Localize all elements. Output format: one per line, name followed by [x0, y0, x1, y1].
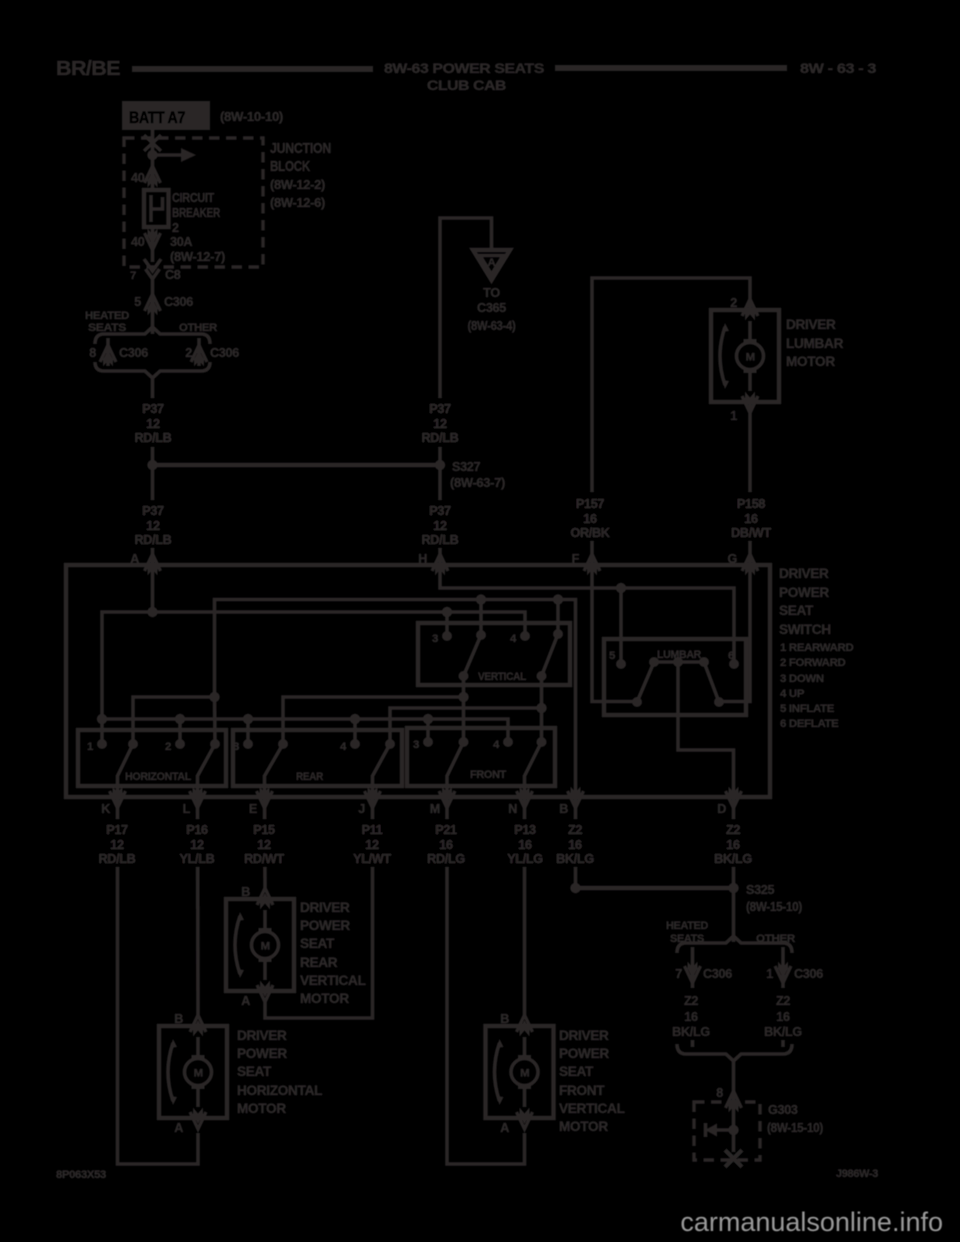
wire lumbar common to pin D [678, 662, 734, 797]
circuit breaker box [144, 190, 169, 227]
front contact 4 [503, 737, 513, 747]
svg-text:TO: TO [483, 286, 500, 300]
wire K to horizontal motor A [118, 797, 199, 1164]
ground branch connector 1 C306 [781, 947, 785, 988]
svg-text:7: 7 [130, 270, 136, 282]
wire label P16 12 YL/LB [177, 819, 217, 867]
svg-text:16: 16 [568, 838, 582, 852]
svg-text:VERTICAL: VERTICAL [478, 671, 526, 683]
switch sub-box LUMBAR [604, 639, 746, 715]
svg-text:carmanualsonline.info: carmanualsonline.info [680, 1207, 943, 1237]
wire label P13 16 YL/LG [504, 819, 545, 867]
svg-text:D: D [717, 802, 726, 816]
wire B to splice [574, 797, 578, 888]
svg-text:REAR: REAR [296, 771, 323, 783]
vertical contact 4 [520, 631, 530, 641]
pin F [584, 554, 600, 576]
wire P37 down to splice [151, 377, 155, 565]
svg-text:16: 16 [744, 512, 758, 526]
wire label P37 12 RD/LB lower [133, 500, 172, 548]
svg-text:8: 8 [716, 1086, 723, 1100]
svg-text:16: 16 [439, 838, 453, 852]
svg-text:8W-63 POWER SEATS: 8W-63 POWER SEATS [384, 61, 544, 76]
svg-text:P16: P16 [186, 823, 208, 837]
svg-text:P158: P158 [737, 497, 766, 511]
svg-text:DRIVER: DRIVER [779, 566, 829, 581]
driver power seat rear vertical motor [226, 888, 294, 1002]
svg-text:RD/LB: RD/LB [135, 533, 172, 547]
wire label P17 12 RD/LB [97, 819, 137, 867]
svg-text:3: 3 [413, 739, 419, 751]
svg-text:RD/LB: RD/LB [99, 852, 136, 866]
svg-text:2: 2 [185, 346, 192, 360]
svg-text:BR/BE: BR/BE [56, 58, 120, 80]
svg-text:C365: C365 [477, 301, 506, 315]
connector C8 double V [144, 259, 161, 271]
wire label P37 12 RD/LB right lower [420, 500, 460, 548]
lumbar contact 5 [616, 659, 626, 669]
rear switch arm left [265, 744, 284, 797]
wire pin F to lumbar rocker left [592, 565, 637, 702]
svg-text:MOTOR: MOTOR [237, 1101, 286, 1116]
svg-text:DRIVER: DRIVER [559, 1028, 609, 1043]
wire label P37 12 RD/LB [133, 398, 172, 447]
svg-text:(8W-12-7): (8W-12-7) [170, 250, 225, 264]
driver power seat horizontal motor [159, 1015, 227, 1129]
svg-text:SEAT: SEAT [559, 1064, 594, 1079]
header rule right [555, 65, 787, 71]
svg-text:CIRCUIT: CIRCUIT [172, 191, 215, 205]
wire D to splice [732, 797, 736, 942]
svg-text:3: 3 [432, 633, 438, 645]
rear switch arm right [373, 744, 391, 797]
svg-text:K: K [101, 802, 110, 816]
svg-text:VERTICAL: VERTICAL [300, 973, 366, 988]
connector 5 C306 [145, 294, 161, 316]
svg-text:RD/LB: RD/LB [135, 431, 172, 445]
svg-text:5: 5 [134, 295, 141, 309]
bus dot and arrow [147, 150, 157, 160]
splice S327 [153, 463, 441, 467]
wire label P21 16 RD/LG [426, 819, 468, 867]
svg-text:RD/LB: RD/LB [422, 533, 459, 547]
svg-text:16: 16 [776, 1010, 790, 1024]
svg-text:P11: P11 [362, 823, 383, 837]
wire stub to lumbar contact 5 [619, 588, 623, 664]
svg-text:6: 6 [728, 650, 734, 662]
switch sub-box HORIZONTAL [78, 730, 226, 786]
pin K [110, 787, 126, 809]
svg-text:S325: S325 [746, 883, 775, 897]
wire bus6 vertical arm right to rear/front arms [540, 676, 544, 742]
svg-text:MOTOR: MOTOR [300, 991, 349, 1006]
svg-text:B: B [241, 885, 250, 899]
svg-text:OR/BK: OR/BK [570, 526, 609, 540]
vertical switch arm left [464, 635, 482, 676]
wire bus3 feed from pin A [102, 612, 525, 719]
svg-text:POWER: POWER [779, 585, 829, 600]
svg-text:JUNCTION: JUNCTION [270, 140, 331, 157]
wire pin A into bus3 [151, 565, 155, 612]
wire label Z2 16 BK/LG right [713, 819, 754, 867]
wire stub bus2 to vertical arm right [556, 600, 560, 635]
svg-text:2: 2 [172, 221, 179, 235]
svg-text:8P063X53: 8P063X53 [56, 1169, 106, 1181]
svg-text:4: 4 [493, 739, 500, 751]
svg-text:2: 2 [165, 741, 171, 753]
wire battery feed vertical [151, 130, 155, 190]
svg-text:P15: P15 [253, 823, 275, 837]
rear contact 4 [350, 739, 360, 749]
vertical switch arm right [542, 634, 559, 676]
wire stub to horizontal contact 1 [100, 719, 104, 744]
off page connector triangle C365 [473, 250, 510, 280]
branch connector 2 C306 [197, 338, 201, 366]
wire bus2 ground trunk from pin B [215, 600, 576, 798]
svg-text:BK/LG: BK/LG [714, 852, 752, 866]
svg-text:HEATED: HEATED [666, 920, 708, 932]
wire below breaker [151, 227, 155, 262]
svg-text:B: B [559, 802, 568, 816]
svg-text:6 DEFLATE: 6 DEFLATE [780, 718, 839, 730]
ground split brace upper [677, 936, 792, 953]
svg-text:P37: P37 [429, 402, 451, 416]
svg-text:BATT A7: BATT A7 [129, 109, 185, 127]
svg-text:4: 4 [340, 741, 347, 753]
svg-text:2: 2 [730, 296, 737, 310]
terminal chevron down [145, 229, 161, 251]
wire label P15 12 RD/WT [244, 819, 285, 867]
horizontal switch arm right [198, 744, 216, 797]
svg-text:POWER: POWER [300, 918, 350, 933]
svg-text:16: 16 [518, 838, 532, 852]
ground symbol [728, 1125, 738, 1135]
svg-text:5 INFLATE: 5 INFLATE [780, 703, 835, 715]
battery feed box BATT A7 [122, 101, 210, 130]
svg-text:(8W-12-2): (8W-12-2) [270, 178, 325, 192]
svg-text:P13: P13 [514, 823, 536, 837]
svg-text:(8W-12-6): (8W-12-6) [270, 196, 325, 210]
wire stub to front contact 3 [426, 719, 430, 742]
pin N [517, 787, 533, 809]
branch connector 8 C306 [106, 338, 110, 366]
vertical contact 3 [442, 631, 452, 641]
svg-text:C306: C306 [164, 295, 193, 309]
svg-text:Z2: Z2 [684, 994, 698, 1008]
wire lumbar motor to pin G [748, 402, 752, 565]
pin J [365, 787, 381, 809]
pin B [568, 787, 584, 809]
svg-text:(8W-63-7): (8W-63-7) [450, 476, 505, 490]
svg-text:HORIZONTAL: HORIZONTAL [237, 1083, 322, 1098]
svg-text:FRONT: FRONT [559, 1083, 605, 1098]
svg-text:SEAT: SEAT [300, 936, 335, 951]
wire bus7 vertical arm left to rear/front arms [462, 676, 466, 742]
wire M to front motor A [447, 797, 525, 1164]
svg-text:(8W-15-10): (8W-15-10) [767, 1121, 823, 1135]
svg-text:4: 4 [510, 633, 517, 645]
wire label P37 12 RD/LB right upper [420, 398, 460, 447]
svg-text:30A: 30A [170, 235, 192, 249]
wire bus5 to horizontal arm left [133, 697, 215, 744]
wire bus1 feed from pin H to lumbar contacts [440, 565, 734, 664]
svg-text:DRIVER: DRIVER [300, 900, 350, 915]
wire F to lumbar motor [592, 278, 750, 565]
svg-text:(8W-15-10): (8W-15-10) [746, 900, 802, 914]
svg-text:REAR: REAR [300, 955, 338, 970]
front contact 3 [423, 737, 433, 747]
svg-text:B: B [174, 1012, 183, 1026]
lumbar contact 6 [729, 659, 739, 669]
wire to brace [151, 310, 155, 334]
svg-text:Z2: Z2 [568, 823, 582, 837]
svg-text:P37: P37 [142, 504, 164, 518]
rear contact 3 [243, 739, 253, 749]
svg-text:HEATED: HEATED [85, 310, 129, 322]
svg-text:N: N [508, 802, 517, 816]
chassis ground X [732, 1130, 736, 1152]
front switch arm right [525, 742, 542, 797]
svg-text:LUMBAR: LUMBAR [786, 336, 844, 351]
svg-text:CLUB CAB: CLUB CAB [427, 78, 507, 93]
svg-text:16: 16 [583, 512, 597, 526]
svg-text:C306: C306 [119, 346, 148, 360]
svg-text:P37: P37 [142, 402, 164, 416]
svg-text:S327: S327 [452, 460, 481, 474]
wire stub to horizontal contact 2 [178, 719, 182, 744]
pin D [726, 787, 742, 809]
ground branch stubs [691, 1040, 695, 1047]
svg-text:C306: C306 [703, 967, 732, 981]
wire to ground G303 [732, 1060, 736, 1130]
svg-text:P17: P17 [106, 823, 128, 837]
driver lumbar motor M1 [711, 299, 779, 413]
svg-text:H: H [418, 552, 427, 566]
svg-text:E: E [249, 802, 257, 816]
wire E to rear motor B [263, 797, 267, 888]
svg-text:C306: C306 [794, 967, 823, 981]
svg-text:L: L [183, 802, 191, 816]
ground terminal 8 [726, 1091, 742, 1113]
svg-text:MOTOR: MOTOR [786, 354, 835, 369]
horizontal contact 1 [97, 739, 107, 749]
driver power seat front vertical motor [486, 1015, 554, 1129]
svg-text:HORIZONTAL: HORIZONTAL [125, 771, 191, 783]
svg-text:P21: P21 [435, 823, 457, 837]
svg-text:J: J [358, 802, 365, 816]
svg-text:2 FORWARD: 2 FORWARD [780, 657, 846, 669]
header rule left [132, 66, 373, 72]
split brace upper [95, 327, 210, 344]
svg-text:3 DOWN: 3 DOWN [780, 673, 824, 685]
svg-text:POWER: POWER [237, 1046, 287, 1061]
splice S325 [576, 886, 734, 890]
wire label Z2 16 BK/LG left [555, 819, 596, 867]
svg-text:C8: C8 [165, 268, 181, 282]
svg-text:BK/LG: BK/LG [556, 852, 594, 866]
wire N to front motor B [523, 797, 527, 1015]
wire stub to rear contact 4 [353, 719, 357, 744]
svg-text:SEAT: SEAT [237, 1064, 272, 1079]
svg-text:FRONT: FRONT [470, 769, 506, 781]
svg-text:3: 3 [233, 741, 239, 753]
svg-text:M: M [430, 802, 440, 816]
horizontal switch arm left [118, 744, 134, 797]
svg-text:12: 12 [365, 838, 379, 852]
switch sub-box FRONT [407, 728, 555, 786]
svg-text:16: 16 [726, 838, 740, 852]
wire bus2 down to horizontal arm right [213, 697, 217, 744]
horizontal contact 2 [175, 739, 185, 749]
pin G [742, 554, 758, 576]
pin A [145, 554, 161, 576]
svg-text:G: G [728, 552, 738, 566]
svg-text:POWER: POWER [559, 1046, 609, 1061]
pin L [190, 787, 206, 809]
switch sub-box REAR [233, 730, 402, 786]
junction block dashed box [124, 138, 263, 267]
svg-text:4 UP: 4 UP [780, 688, 805, 700]
svg-text:12: 12 [257, 838, 271, 852]
svg-text:VERTICAL: VERTICAL [559, 1101, 625, 1116]
wire label P11 12 YL/WT [352, 819, 393, 867]
switch box [66, 565, 770, 797]
svg-text:B: B [500, 1012, 509, 1026]
svg-text:YL/LG: YL/LG [507, 852, 543, 866]
svg-text:(8W-10-10): (8W-10-10) [220, 110, 283, 124]
ground dashed box G303 [694, 1102, 760, 1160]
merge brace lower [95, 362, 210, 378]
circuit breaker element [151, 195, 163, 222]
svg-text:RD/WT: RD/WT [244, 852, 284, 866]
svg-text:1: 1 [87, 741, 94, 753]
svg-text:12: 12 [146, 519, 160, 533]
svg-text:12: 12 [110, 838, 124, 852]
wire L to horizontal motor B [196, 797, 200, 1015]
svg-text:40: 40 [131, 171, 145, 185]
svg-text:12: 12 [433, 519, 447, 533]
svg-text:SEAT: SEAT [779, 603, 814, 618]
svg-text:DB/WT: DB/WT [731, 526, 771, 540]
switch sub-box VERTICAL [418, 623, 570, 685]
svg-text:1 REARWARD: 1 REARWARD [780, 642, 853, 654]
wire label P157 16 OR/BK [569, 492, 611, 541]
wire stub bus2 to vertical arm left [479, 600, 483, 636]
svg-text:BK/LG: BK/LG [672, 1025, 710, 1039]
svg-text:YL/LB: YL/LB [180, 852, 215, 866]
svg-text:Z2: Z2 [726, 823, 740, 837]
svg-text:A: A [488, 257, 496, 269]
ground branch connector 7 C306 [691, 947, 695, 988]
svg-text:12: 12 [190, 838, 204, 852]
svg-text:5: 5 [609, 650, 616, 662]
svg-text:A: A [241, 994, 250, 1008]
svg-text:DRIVER: DRIVER [786, 317, 836, 332]
svg-text:MOTOR: MOTOR [559, 1119, 608, 1134]
wire stub bus3 to vertical contact 3 [445, 612, 449, 636]
svg-text:SWITCH: SWITCH [779, 622, 831, 637]
svg-text:Z2: Z2 [776, 994, 790, 1008]
svg-text:J986W-3: J986W-3 [836, 1168, 878, 1180]
svg-text:G303: G303 [768, 1103, 798, 1117]
svg-text:YL/WT: YL/WT [353, 852, 391, 866]
svg-text:16: 16 [684, 1010, 698, 1024]
svg-text:40: 40 [131, 235, 145, 249]
wire to C306 [151, 279, 155, 310]
wire bus4 feed row [102, 719, 508, 742]
wire J to rear motor A [265, 797, 373, 1018]
pin H [432, 554, 448, 576]
svg-text:1: 1 [730, 409, 737, 423]
svg-text:12: 12 [433, 417, 447, 431]
svg-text:8W - 63 - 3: 8W - 63 - 3 [800, 61, 877, 76]
svg-text:7: 7 [675, 967, 682, 981]
front switch arm left [447, 742, 464, 797]
svg-text:A: A [174, 1121, 183, 1135]
wire label P158 16 DB/WT [730, 492, 772, 541]
svg-text:12: 12 [146, 417, 160, 431]
svg-text:A: A [130, 552, 139, 566]
wire from C365 triangle elbow [440, 218, 492, 565]
svg-text:1: 1 [766, 967, 773, 981]
svg-text:RD/LB: RD/LB [422, 431, 459, 445]
svg-text:F: F [572, 552, 580, 566]
svg-text:DRIVER: DRIVER [237, 1028, 287, 1043]
terminal chevron up [145, 166, 161, 188]
svg-text:RD/LG: RD/LG [427, 852, 465, 866]
wire stub to rear contact 3 [246, 719, 250, 744]
pin M [439, 787, 455, 809]
svg-text:P157: P157 [576, 497, 605, 511]
pin E [257, 787, 273, 809]
svg-text:BK/LG: BK/LG [764, 1025, 802, 1039]
wire pin G to lumbar rocker right [719, 565, 750, 702]
svg-text:P37: P37 [429, 504, 451, 518]
svg-text:(8W-63-4): (8W-63-4) [468, 319, 516, 333]
svg-text:A: A [500, 1121, 509, 1135]
svg-text:BREAKER: BREAKER [172, 206, 220, 220]
fuse crossing X at junction block edge [144, 135, 161, 151]
svg-text:BLOCK: BLOCK [270, 158, 310, 175]
svg-text:C306: C306 [210, 346, 239, 360]
ground merge brace lower [677, 1044, 792, 1061]
svg-text:8: 8 [89, 346, 96, 360]
lumbar rocker [637, 662, 719, 702]
